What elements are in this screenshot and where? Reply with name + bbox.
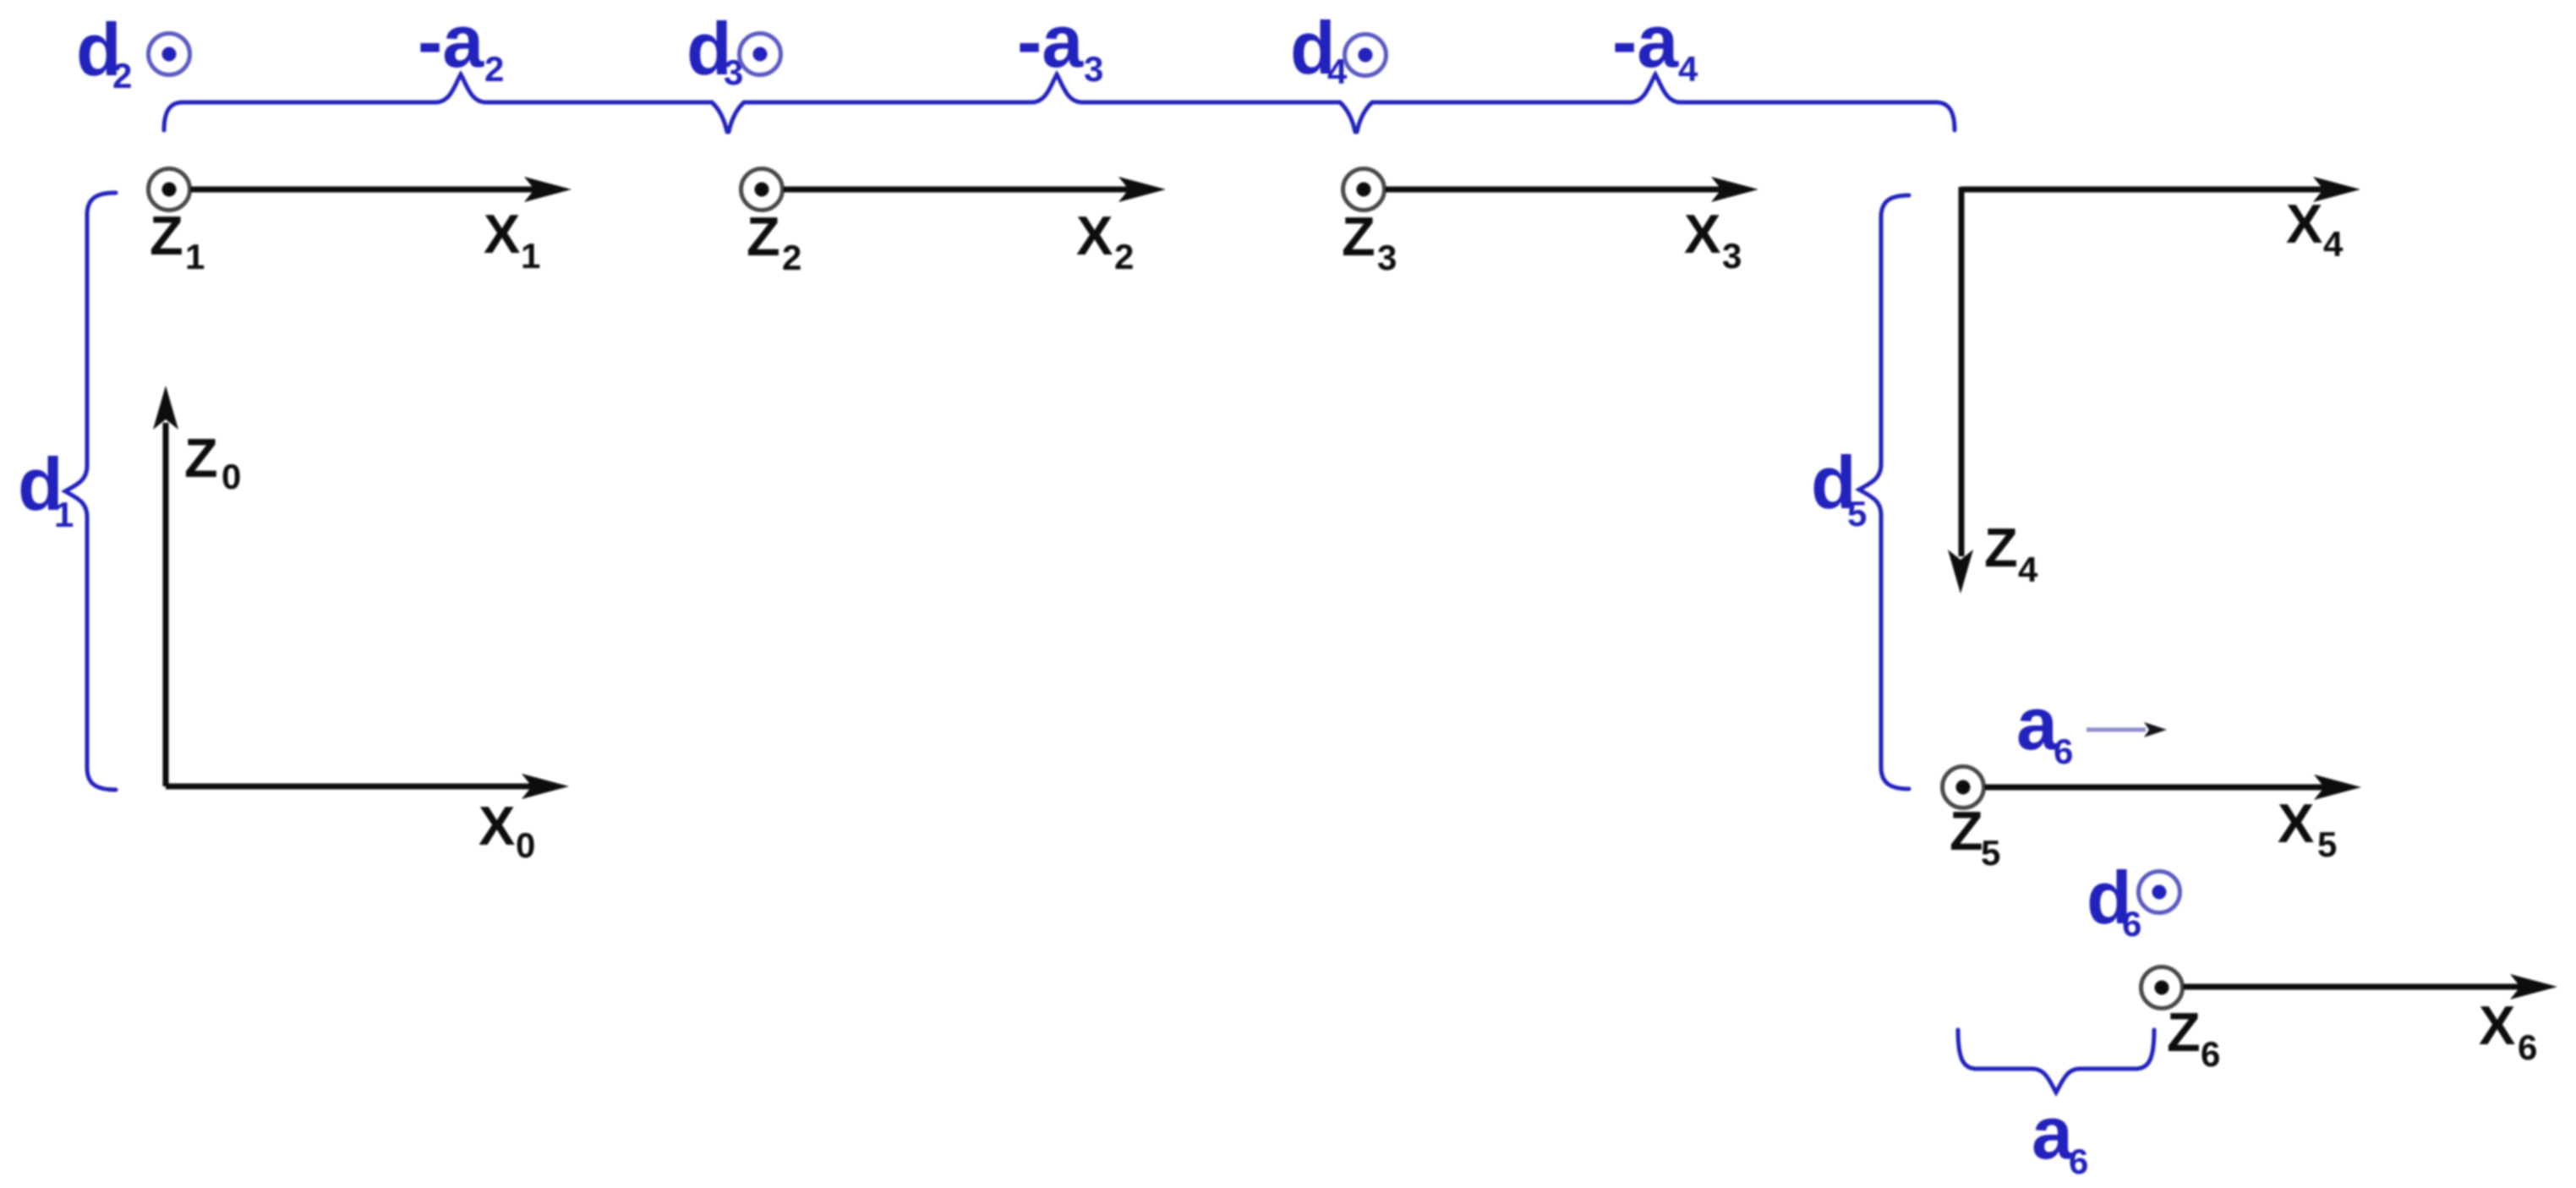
svg-text:X: X: [2278, 792, 2314, 854]
svg-text:a: a: [2032, 1091, 2074, 1174]
a6 small arrow: [2087, 728, 2146, 732]
svg-text:5: 5: [1847, 494, 1867, 534]
svg-text:a: a: [2016, 682, 2059, 765]
symbol d2 circle-dot: [149, 34, 190, 75]
svg-text:1: 1: [54, 495, 74, 534]
svg-text:Z: Z: [747, 205, 780, 267]
svg-text:3: 3: [1722, 236, 1742, 276]
brace -a3 span: [729, 74, 1355, 132]
svg-text:X: X: [479, 795, 515, 857]
svg-text:Z: Z: [150, 205, 183, 266]
svg-text:X: X: [1076, 205, 1113, 266]
svg-text:Z: Z: [1984, 517, 2018, 578]
svg-text:5: 5: [2317, 824, 2337, 864]
svg-text:X: X: [484, 203, 520, 265]
frame0 X0 axis arrow right: [166, 784, 535, 790]
brace -a2 span: [164, 74, 727, 132]
frame6 Z6 circle-dot: [2141, 967, 2183, 1009]
brace -a4 span: [1357, 74, 1955, 132]
svg-text:2: 2: [782, 238, 801, 277]
frame2 Z2 circle-dot: [741, 169, 783, 211]
svg-text:1: 1: [521, 236, 540, 276]
symbol d4 circle-dot: [1345, 35, 1386, 76]
svg-text:0: 0: [222, 457, 241, 496]
svg-text:-a: -a: [418, 0, 484, 83]
frame1 X1 axis arrow: [190, 187, 538, 193]
svg-text:6: 6: [2069, 1141, 2088, 1181]
svg-text:0: 0: [516, 825, 535, 865]
frame1 Z1 circle-dot: [149, 169, 190, 211]
frame3 Z3 circle-dot: [1343, 169, 1385, 211]
frame4 Z4 axis arrow down: [1959, 187, 1965, 556]
frame2 X2 axis arrow: [783, 187, 1132, 193]
svg-text:2: 2: [112, 56, 132, 96]
svg-text:X: X: [1684, 203, 1720, 265]
svg-text:6: 6: [2054, 731, 2073, 771]
frame5 X5 axis arrow: [1984, 785, 2327, 791]
svg-text:4: 4: [2323, 224, 2344, 264]
svg-text:4: 4: [1678, 49, 1698, 89]
frame5 Z5 circle-dot: [1943, 767, 1984, 808]
svg-text:1: 1: [185, 237, 205, 276]
svg-text:2: 2: [484, 49, 504, 89]
frame6 X6 axis arrow: [2183, 984, 2524, 990]
svg-text:Z: Z: [2167, 1001, 2201, 1063]
svg-text:4: 4: [2018, 550, 2038, 589]
svg-text:X: X: [2479, 994, 2515, 1056]
brace a6 bottom: [1958, 1030, 2154, 1092]
frame0 Z0 axis arrow up: [163, 423, 169, 786]
svg-text:-a: -a: [1017, 0, 1084, 83]
svg-text:Z: Z: [1342, 205, 1376, 267]
svg-text:3: 3: [1377, 238, 1397, 277]
svg-text:6: 6: [2201, 1034, 2220, 1074]
brace d1 vertical: [65, 193, 116, 790]
svg-text:X: X: [2286, 193, 2322, 255]
svg-text:Z: Z: [184, 427, 218, 489]
svg-text:5: 5: [1981, 833, 2000, 873]
svg-text:2: 2: [1114, 237, 1134, 276]
symbol d6 circle-dot: [2139, 872, 2180, 913]
svg-text:-a: -a: [1612, 0, 1679, 83]
svg-text:3: 3: [1084, 49, 1103, 89]
brace d5 vertical: [1859, 195, 1909, 789]
frame4 X4 axis arrow: [1961, 187, 2327, 193]
symbol d3 circle-dot: [740, 34, 781, 75]
svg-text:6: 6: [2122, 904, 2141, 944]
svg-text:6: 6: [2518, 1027, 2537, 1067]
frame3 X3 axis arrow: [1385, 187, 1725, 193]
svg-text:Z: Z: [1950, 800, 1983, 862]
